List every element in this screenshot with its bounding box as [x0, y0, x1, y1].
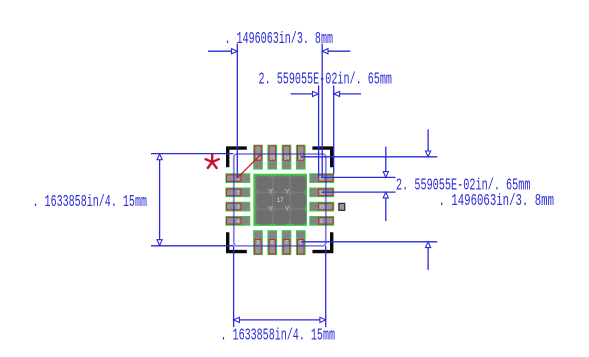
pin 12 pad — [310, 174, 334, 183]
svg-text:. 1496063in/3. 8mm: . 1496063in/3. 8mm — [225, 30, 334, 49]
pin 6 pad — [268, 231, 277, 255]
corner bracket top-right — [312, 148, 331, 167]
svg-text:. 1633858in/4. 15mm: . 1633858in/4. 15mm — [221, 327, 336, 346]
svg-text:14: 14 — [284, 156, 290, 162]
pin 8 pad — [297, 231, 306, 255]
pin 1 asterisk — [206, 154, 219, 168]
pin 1 indicator line — [237, 154, 261, 178]
pin 10 pad — [310, 202, 334, 211]
component body outline (translucent) — [234, 154, 326, 246]
thermal pad 17 with paste grid and vias — [254, 175, 306, 225]
pin 3 pad — [226, 202, 250, 211]
pin 13 pad — [297, 145, 306, 169]
corner bracket top-left — [228, 148, 247, 167]
pin 4 pad — [226, 217, 250, 226]
svg-text:15: 15 — [269, 156, 275, 162]
pin 5 pad — [254, 231, 263, 255]
svg-text:10: 10 — [319, 205, 325, 211]
dimension: bottom 4.15mm horizontal — [221, 246, 336, 346]
dimension: right 3.8mm vertical — [301, 129, 554, 270]
corner bracket bottom-right — [312, 232, 331, 251]
corner bracket bottom-left — [228, 232, 247, 251]
pin 2 pad — [226, 188, 250, 197]
pin 7 pad — [282, 231, 291, 255]
svg-text:. 1633858in/4. 15mm: . 1633858in/4. 15mm — [33, 193, 148, 212]
pin 16 pad — [254, 145, 263, 169]
svg-text:2: 2 — [237, 190, 240, 196]
dimension: top 3.8mm horizontal — [208, 30, 350, 178]
pin 15 pad — [268, 145, 277, 169]
dimension: left 4.15mm vertical — [33, 154, 234, 246]
pin 9 pad — [310, 217, 334, 226]
svg-text:11: 11 — [319, 190, 324, 196]
dimension: right 0.65mm pitch — [322, 147, 531, 222]
svg-text:4: 4 — [237, 219, 240, 225]
pin 11 pad — [310, 188, 334, 197]
svg-text:17: 17 — [277, 198, 284, 204]
dimension: top 0.65mm pitch — [259, 71, 393, 178]
svg-text:3: 3 — [237, 205, 240, 211]
polarity square marker — [339, 203, 345, 210]
pin 14 pad — [282, 145, 291, 169]
svg-text:. 1496063in/3. 8mm: . 1496063in/3. 8mm — [439, 192, 555, 211]
svg-text:2. 559055E-02in/. 65mm: 2. 559055E-02in/. 65mm — [259, 71, 393, 90]
svg-text:9: 9 — [320, 219, 323, 225]
pin 1 pad — [226, 174, 250, 183]
